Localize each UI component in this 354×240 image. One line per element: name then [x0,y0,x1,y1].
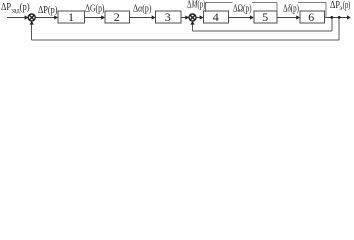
svg-text:1: 1 [68,10,74,24]
svg-text:6: 6 [308,10,314,24]
wire top feedback segment B [252,2,277,4]
svg-text:3: 3 [165,10,171,24]
wire block3 to junction2 [181,17,186,19]
block 2 [105,11,130,23]
wire junction2 to block4 [196,17,201,19]
wire outer feedback bottom [32,39,340,41]
arrowhead into block3 [152,15,156,19]
wire inner feedback riser to junction2 [192,22,194,32]
arrowhead into block4 [200,15,204,19]
wire top feedback drop to output node [325,3,327,18]
arrowhead into block5 [250,15,254,19]
summing junction 1 circle [28,14,35,21]
block 1 [58,11,85,23]
block 3 [156,11,182,23]
wire inner feedback drop [331,16,333,31]
arrowhead up into junction2 from below [190,21,194,25]
wire block5 to block6 [277,17,297,19]
arrowhead into block6 [296,15,300,19]
arrowhead up into junction1 from below [30,21,34,25]
wire input ΔPzad [7,17,26,19]
wire block4 to block5 [229,17,251,19]
arrowhead output [347,15,351,19]
svg-text:ΔΩ(p): ΔΩ(p) [233,3,252,14]
wire inner feedback bottom [193,30,332,32]
svg-text:4: 4 [213,10,219,24]
wire top feedback drop left at block4 [205,3,207,13]
svg-text:ΔG(p): ΔG(p) [85,3,105,14]
wire junction1 to block1 [35,17,55,19]
block 5 [254,11,277,23]
svg-text:ΔM(p): ΔM(p) [187,0,206,10]
arrowhead into junction1 [25,15,29,19]
wire outer feedback drop [338,16,340,40]
arrowhead into junction2 [185,15,189,19]
svg-text:ΔP(p): ΔP(p) [38,5,58,16]
node dot inner feedback tap [330,16,333,19]
node dot outer feedback tap [338,16,341,19]
block 4 [204,11,229,23]
block 6 [300,11,325,23]
svg-text:(p): (p) [20,2,30,13]
wire output after block6 [325,17,349,19]
arrowhead into block2 [101,15,105,19]
svg-text:Δδ(p): Δδ(p) [283,3,299,14]
wire outer feedback riser to junction1 [31,22,33,41]
wire block1 to block2 [85,17,103,19]
summing junction 2 cross [190,15,195,20]
arrowhead into block1 [54,15,58,19]
summing junction 1 cross [29,15,34,20]
wire top feedback segment A [206,2,233,4]
summing junction 2 circle [189,14,196,21]
svg-text:5: 5 [262,10,268,24]
wire top feedback riser at block5 right [276,3,278,12]
svg-text:Δα(p): Δα(p) [133,3,152,14]
svg-text:(p): (p) [343,0,351,11]
wire top feedback segment C [298,2,326,4]
svg-text:2: 2 [114,10,120,24]
wire block2 to block3 [130,17,153,19]
svg-text:ΔP: ΔP [1,2,11,13]
